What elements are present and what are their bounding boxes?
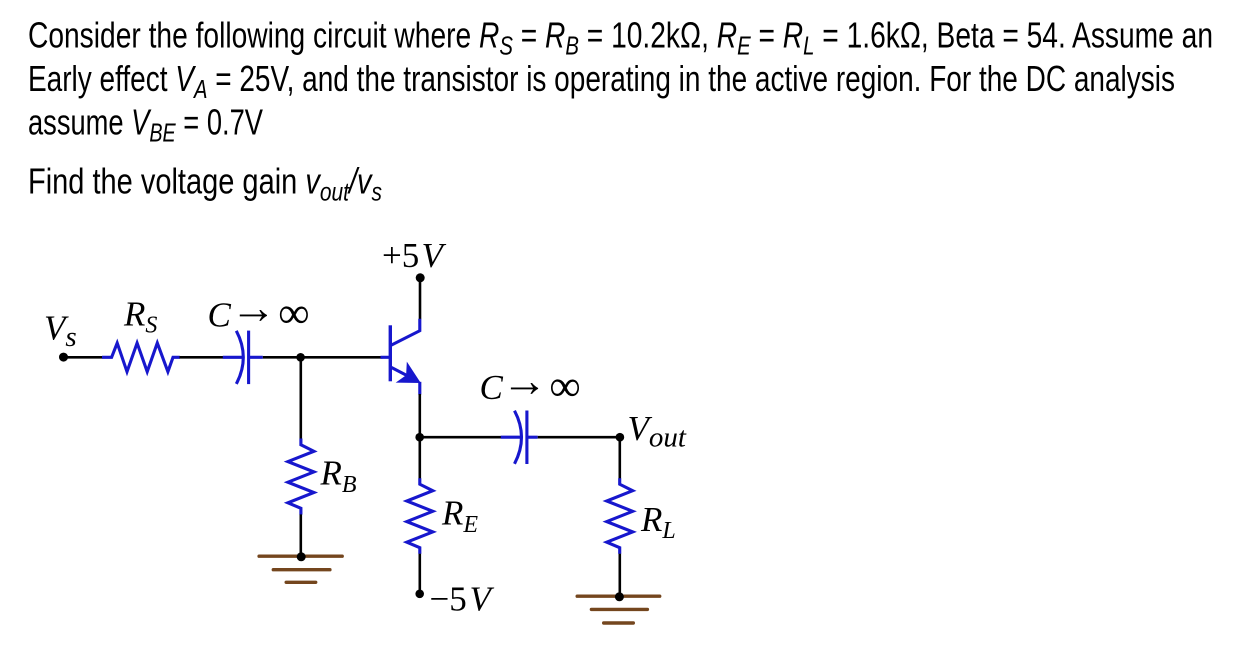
svg-text:+5: +5: [382, 236, 419, 275]
node Vout: [616, 409, 687, 453]
svg-text:assume VBE = 0.7V: assume VBE = 0.7V: [28, 101, 263, 147]
svg-text:RL: RL: [640, 500, 676, 544]
resistor RL: [607, 478, 633, 554]
svg-text:−5: −5: [430, 580, 467, 619]
ground G1: [259, 556, 342, 582]
capacitor C1: [223, 331, 263, 385]
supply -5V: [415, 580, 494, 619]
node ground G1 junction: [297, 552, 306, 561]
svg-text:RB: RB: [320, 454, 357, 498]
svg-text:Vs: Vs: [44, 309, 77, 354]
svg-text:RS: RS: [123, 295, 157, 339]
node Vs: [59, 353, 68, 362]
svg-text:∞: ∞: [278, 289, 309, 338]
resistor RB: [288, 439, 314, 515]
svg-text:→: →: [230, 282, 276, 333]
wire Vout to RL: [618, 437, 621, 478]
wire RB to ground: [299, 514, 302, 556]
svg-text:Find the voltage gain vout/vs: Find the voltage gain vout/vs: [28, 161, 382, 207]
label C to infinity 2: [480, 355, 581, 411]
svg-text:∞: ∞: [549, 362, 580, 411]
svg-text:C: C: [208, 296, 232, 335]
svg-text:Vout: Vout: [628, 409, 687, 453]
svg-text:Early effect VA = 25V, and the: Early effect VA = 25V, and the transisto…: [28, 58, 1175, 104]
svg-text:Consider the following circuit: Consider the following circuit where RS …: [28, 14, 1213, 60]
wire emitter node to RE: [418, 437, 421, 478]
wire RL to ground: [618, 554, 621, 597]
svg-text:V: V: [422, 236, 447, 275]
wire C1 to base node: [263, 356, 383, 359]
wire RS to C1: [180, 356, 224, 359]
svg-text:→: →: [502, 355, 548, 406]
transistor Q1: [381, 319, 420, 395]
resistor RS: [102, 343, 180, 372]
wire emitter node to C2: [420, 436, 501, 439]
wire RE to -5V: [418, 554, 421, 594]
wire collector: [419, 279, 422, 319]
node base junction: [296, 353, 305, 362]
capacitor C2: [501, 411, 538, 465]
node emitter junction: [415, 433, 424, 442]
wire emitter: [418, 394, 421, 437]
svg-text:RE: RE: [441, 494, 478, 538]
wire base node to RB: [299, 357, 302, 439]
resistor RE: [407, 478, 433, 554]
wire Vs to RS: [64, 356, 103, 359]
svg-text:C: C: [480, 368, 504, 407]
wire C2 to Vout node: [538, 436, 620, 439]
label C to infinity 1: [208, 282, 310, 338]
ground G2: [577, 596, 660, 623]
svg-text:V: V: [470, 580, 495, 619]
supply +5V: [382, 236, 447, 282]
node ground G2 junction: [615, 592, 624, 601]
